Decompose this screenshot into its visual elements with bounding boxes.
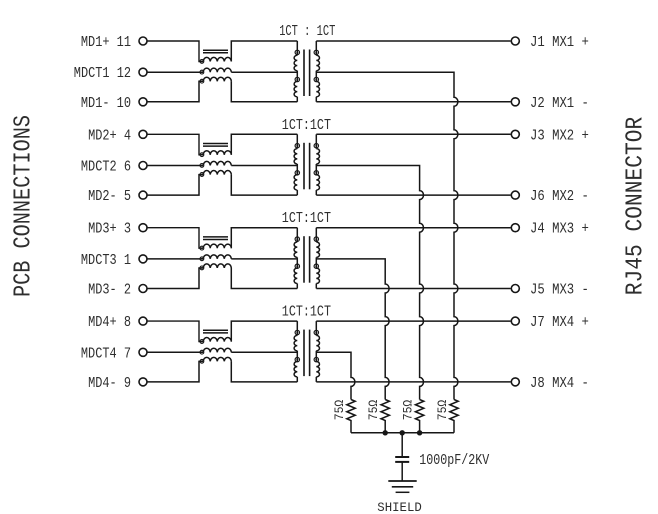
wire secondary center tap MX2 to termination bbox=[316, 166, 423, 400]
svg-text:J1 MX1 +: J1 MX1 + bbox=[530, 35, 589, 51]
svg-text:PCB CONNECTIONS: PCB CONNECTIONS bbox=[11, 115, 38, 297]
wire MD3+ to choke bbox=[147, 228, 203, 249]
svg-text:75Ω: 75Ω bbox=[367, 399, 381, 420]
svg-text:MD4+ 8: MD4+ 8 bbox=[88, 315, 131, 331]
transformer T1 primary phase dot (bottom) bbox=[295, 77, 299, 81]
transformer T3 primary phase dot (bottom) bbox=[295, 264, 299, 268]
wire MD4+ to choke bbox=[147, 321, 203, 342]
choke L2 winding B bbox=[203, 161, 231, 165]
svg-text:RJ45 CONNECTOR: RJ45 CONNECTOR bbox=[623, 117, 650, 295]
node R2 junction bbox=[417, 430, 422, 435]
wire MDCT3 to choke bbox=[147, 258, 203, 260]
wire choke L1 to transformer T1 (bottom) bbox=[231, 81, 297, 102]
common-mode choke L1 core bbox=[203, 50, 228, 53]
svg-text:J8 MX4 -: J8 MX4 - bbox=[530, 376, 589, 392]
svg-text:J5 MX3 -: J5 MX3 - bbox=[530, 283, 589, 299]
transformer T2 secondary winding bbox=[316, 134, 319, 195]
svg-text:J3 MX2 +: J3 MX2 + bbox=[530, 128, 589, 144]
wire MDCT4 to choke bbox=[147, 351, 203, 353]
wire MD3- to choke bbox=[147, 268, 203, 289]
pin terminal MD4+ bbox=[139, 317, 147, 325]
transformer T3 secondary phase dot (top) bbox=[314, 237, 318, 241]
svg-text:1CT:1CT: 1CT:1CT bbox=[282, 211, 331, 227]
wire MD1+ to choke bbox=[147, 41, 203, 62]
transformer T2 primary phase dot (bottom) bbox=[295, 171, 299, 175]
transformer T2 core bbox=[304, 143, 310, 190]
wire secondary center tap MX4 to termination bbox=[316, 352, 355, 399]
pin terminal J8 bbox=[511, 378, 519, 386]
pin terminal MDCT1 bbox=[139, 68, 147, 76]
wire J5 (MX3 -) bbox=[316, 288, 510, 290]
wire J6 (MX2 -) bbox=[316, 194, 510, 196]
svg-text:1CT:1CT: 1CT:1CT bbox=[282, 118, 331, 134]
choke L1 winding C bbox=[203, 77, 231, 81]
choke L3 winding B phase dot bbox=[200, 257, 204, 261]
svg-text:SHIELD: SHIELD bbox=[377, 500, 422, 514]
transformer T4 secondary phase dot (bottom) bbox=[314, 357, 318, 361]
pin terminal MDCT2 bbox=[139, 162, 147, 170]
common-mode choke L4 core bbox=[203, 330, 228, 333]
transformer T4 primary winding bbox=[294, 321, 297, 382]
wire choke L2 to transformer T2 (center tap) bbox=[231, 165, 297, 167]
transformer T2 secondary phase dot (top) bbox=[314, 144, 318, 148]
transformer T1 secondary phase dot (top) bbox=[314, 50, 318, 54]
common-mode choke L2 core bbox=[203, 144, 228, 147]
wire MD4- to choke bbox=[147, 361, 203, 382]
wire choke L3 to transformer T3 (center tap) bbox=[231, 258, 297, 260]
transformer T2 primary phase dot (top) bbox=[295, 144, 299, 148]
wire J1 (MX1 +) bbox=[316, 40, 510, 42]
choke L1 winding A phase dot bbox=[200, 60, 204, 64]
pin terminal MDCT3 bbox=[139, 255, 147, 263]
choke L3 winding C bbox=[203, 264, 231, 268]
pin terminal J5 bbox=[511, 285, 519, 293]
wire choke L2 to transformer T2 (top) bbox=[231, 134, 297, 155]
pin terminal MD2+ bbox=[139, 130, 147, 138]
wire choke L4 to transformer T4 (top) bbox=[231, 321, 297, 342]
svg-text:75Ω: 75Ω bbox=[436, 399, 450, 420]
resistor R1 75ohm bbox=[450, 400, 458, 433]
choke L2 winding C bbox=[203, 171, 231, 175]
wire J8 (MX4 -) bbox=[316, 381, 510, 383]
wire MD2+ to choke bbox=[147, 134, 203, 155]
svg-text:MDCT1 12: MDCT1 12 bbox=[74, 66, 131, 82]
choke L3 winding B bbox=[203, 255, 231, 259]
wire J2 (MX1 -) bbox=[316, 101, 510, 103]
transformer T1 primary phase dot (top) bbox=[295, 50, 299, 54]
transformer T1 secondary winding bbox=[316, 41, 319, 102]
wire secondary center tap MX3 to termination bbox=[316, 259, 389, 400]
svg-text:MD1- 10: MD1- 10 bbox=[81, 96, 131, 112]
wire choke L2 to transformer T2 (bottom) bbox=[231, 175, 297, 196]
svg-text:MD3+ 3: MD3+ 3 bbox=[88, 222, 131, 238]
pin terminal J4 bbox=[511, 224, 519, 232]
choke L3 winding A bbox=[203, 244, 231, 248]
svg-text:MDCT2 6: MDCT2 6 bbox=[81, 160, 131, 176]
wire choke L1 to transformer T1 (top) bbox=[231, 41, 297, 62]
transformer T1 core bbox=[304, 50, 310, 97]
wire choke L4 to transformer T4 (center tap) bbox=[231, 351, 297, 353]
wire MD1- to choke bbox=[147, 81, 203, 102]
choke L1 winding B phase dot bbox=[200, 70, 204, 74]
resistor R3 75ohm bbox=[381, 400, 389, 433]
svg-text:J6 MX2 -: J6 MX2 - bbox=[530, 189, 589, 205]
wire MDCT2 to choke bbox=[147, 165, 203, 167]
svg-text:J7 MX4 +: J7 MX4 + bbox=[530, 315, 589, 331]
svg-text:1000pF/2KV: 1000pF/2KV bbox=[419, 453, 489, 469]
transformer T3 secondary winding bbox=[316, 228, 319, 289]
wire secondary center tap MX1 to termination bbox=[316, 72, 458, 399]
pin terminal MD1- bbox=[139, 98, 147, 106]
choke L4 winding B bbox=[203, 348, 231, 352]
capacitor C1 1000pF/2KV bbox=[395, 457, 409, 462]
choke L3 winding A phase dot bbox=[200, 246, 204, 250]
node R3 junction bbox=[383, 430, 388, 435]
ground (earth) symbol SHIELD bbox=[388, 481, 416, 492]
pin terminal MD1+ bbox=[139, 37, 147, 45]
pin terminal MD3- bbox=[139, 285, 147, 293]
common-mode choke L3 core bbox=[203, 237, 228, 240]
svg-text:MD2- 5: MD2- 5 bbox=[88, 189, 131, 205]
wire capacitor to ground bbox=[401, 462, 403, 481]
choke L1 winding A bbox=[203, 57, 231, 61]
transformer T4 primary phase dot (bottom) bbox=[295, 357, 299, 361]
transformer T3 primary winding bbox=[294, 228, 297, 289]
choke L1 winding B bbox=[203, 68, 231, 72]
svg-text:1CT : 1CT: 1CT : 1CT bbox=[279, 24, 335, 40]
pin terminal MD3+ bbox=[139, 224, 147, 232]
pin terminal J6 bbox=[511, 191, 519, 199]
wire MDCT1 to choke bbox=[147, 71, 203, 73]
pin terminal MD4- bbox=[139, 378, 147, 386]
wire termination bus bbox=[351, 432, 454, 434]
choke L2 winding B phase dot bbox=[200, 164, 204, 168]
pin terminal MDCT4 bbox=[139, 348, 147, 356]
pin terminal J1 bbox=[511, 37, 519, 45]
svg-text:75Ω: 75Ω bbox=[402, 399, 416, 420]
choke L4 winding B phase dot bbox=[200, 350, 204, 354]
choke L1 winding C phase dot bbox=[200, 79, 204, 83]
svg-text:MDCT3 1: MDCT3 1 bbox=[81, 253, 131, 269]
wire J4 (MX3 +) bbox=[316, 227, 510, 229]
svg-text:MD4- 9: MD4- 9 bbox=[88, 376, 131, 392]
wire bus to capacitor bbox=[401, 433, 403, 457]
wire MD2- to choke bbox=[147, 175, 203, 196]
transformer T2 secondary phase dot (bottom) bbox=[314, 171, 318, 175]
transformer T4 secondary phase dot (top) bbox=[314, 330, 318, 334]
transformer T1 primary winding bbox=[294, 41, 297, 102]
resistor R4 75ohm bbox=[347, 400, 355, 433]
choke L4 winding A bbox=[203, 338, 231, 342]
transformer T2 primary winding bbox=[294, 134, 297, 195]
svg-text:MD1+ 11: MD1+ 11 bbox=[81, 35, 131, 51]
svg-text:MD2+ 4: MD2+ 4 bbox=[88, 128, 131, 144]
pin terminal J3 bbox=[511, 130, 519, 138]
choke L4 winding C phase dot bbox=[200, 359, 204, 363]
svg-text:1CT:1CT: 1CT:1CT bbox=[282, 305, 331, 321]
choke L4 winding C bbox=[203, 357, 231, 361]
resistor R2 75ohm bbox=[415, 400, 423, 433]
svg-text:J4 MX3 +: J4 MX3 + bbox=[530, 222, 589, 238]
choke L3 winding C phase dot bbox=[200, 266, 204, 270]
svg-text:J2 MX1 -: J2 MX1 - bbox=[530, 96, 589, 112]
wire J3 (MX2 +) bbox=[316, 133, 510, 135]
transformer T3 secondary phase dot (bottom) bbox=[314, 264, 318, 268]
transformer T4 secondary winding bbox=[316, 321, 319, 382]
transformer T4 core bbox=[304, 330, 310, 377]
wire choke L1 to transformer T1 (center tap) bbox=[231, 71, 297, 73]
choke L4 winding A phase dot bbox=[200, 340, 204, 344]
transformer T3 primary phase dot (top) bbox=[295, 237, 299, 241]
transformer T4 primary phase dot (top) bbox=[295, 330, 299, 334]
pin terminal J7 bbox=[511, 317, 519, 325]
choke L2 winding A bbox=[203, 151, 231, 155]
pin terminal J2 bbox=[511, 98, 519, 106]
transformer T1 secondary phase dot (bottom) bbox=[314, 77, 318, 81]
choke L2 winding A phase dot bbox=[200, 153, 204, 157]
wire choke L3 to transformer T3 (bottom) bbox=[231, 268, 297, 289]
svg-text:MD3- 2: MD3- 2 bbox=[88, 283, 131, 299]
node capacitor junction bbox=[400, 430, 405, 435]
wire choke L3 to transformer T3 (top) bbox=[231, 228, 297, 249]
choke L2 winding C phase dot bbox=[200, 173, 204, 177]
svg-text:MDCT4 7: MDCT4 7 bbox=[81, 346, 131, 362]
wire choke L4 to transformer T4 (bottom) bbox=[231, 361, 297, 382]
transformer T3 core bbox=[304, 236, 310, 283]
pin terminal MD2- bbox=[139, 191, 147, 199]
svg-text:75Ω: 75Ω bbox=[333, 399, 347, 420]
wire J7 (MX4 +) bbox=[316, 320, 510, 322]
